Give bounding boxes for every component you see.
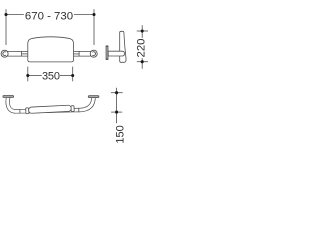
front view: backrest pad [28, 37, 74, 62]
svg-text:220: 220 [136, 38, 148, 57]
top view: left collar [26, 108, 29, 114]
dim 220 top dot [141, 29, 144, 32]
front view: right flange inner circle [92, 52, 95, 56]
front view: tube top line left [7, 50, 28, 52]
dim 220 top tick [137, 30, 148, 32]
top view: backrest pad (plan) [28, 105, 71, 113]
dim 670-730 left dot [4, 13, 7, 16]
dim 150 top tick [111, 92, 123, 94]
dim 350 line left segment [28, 75, 42, 77]
dim 670-730 line right segment [74, 14, 94, 16]
dim 350 left extension/tick [27, 67, 29, 82]
front view: left sleeve middle line [22, 53, 28, 55]
dim 670-730 line left segment [6, 14, 24, 16]
dim 220 bottom tick [137, 61, 148, 63]
front view: left flange outer circle [1, 50, 8, 57]
dim 150 bottom dot [115, 111, 118, 114]
dim 350 right dot [71, 74, 74, 77]
dim 220 line bottom segment [141, 58, 143, 69]
svg-text:670 - 730: 670 - 730 [25, 11, 73, 23]
top view: right flange plate [88, 96, 99, 98]
front view: tube bottom line left [7, 55, 28, 57]
svg-text:150: 150 [114, 125, 126, 143]
front view: tube bottom line right [74, 55, 91, 57]
front view: left flange inner circle [3, 52, 6, 56]
side view: wall flange bar [106, 46, 108, 60]
dim 220 line top segment [141, 25, 143, 38]
front view: left sleeve joint [21, 51, 23, 56]
dim 670-730 left extension line [5, 9, 7, 45]
dim 350 left dot [26, 74, 29, 77]
front view: tube top line right [74, 50, 91, 52]
front view: right sleeve joint [78, 51, 80, 56]
top view: bar tube dark outline [8, 97, 94, 112]
svg-text:350: 350 [42, 70, 60, 82]
top view: grab bar tube (outline via double stroke) [8, 97, 94, 112]
side view: tube with rounded cap [108, 51, 124, 56]
front view: right sleeve middle line [74, 53, 80, 55]
top view: bar tube white core [8, 97, 94, 112]
side view: flange bottom flare [106, 58, 109, 60]
top view: left flange plate [3, 96, 14, 98]
dim 350 line right segment [60, 75, 73, 77]
dim 350 right extension/tick [72, 67, 74, 82]
front view: right flange outer circle [90, 50, 97, 57]
dim 150 bottom tick [111, 111, 122, 113]
top view: right collar [71, 106, 74, 112]
side view: backrest pad side profile [120, 31, 126, 62]
dim 150 top dot [115, 91, 118, 94]
dim 150 line [116, 88, 118, 124]
dim 220 bottom dot [141, 60, 144, 63]
dim 670-730 right dot [92, 13, 95, 16]
dim 670-730 right extension line [93, 9, 95, 45]
top view: right tube joint [78, 108, 80, 112]
top view: left tube joint [19, 109, 21, 113]
side view: flange top flare [106, 45, 109, 47]
